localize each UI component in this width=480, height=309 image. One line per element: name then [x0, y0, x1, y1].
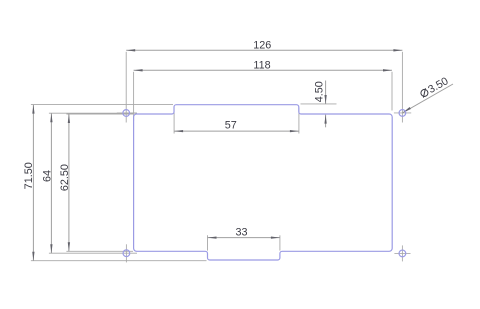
svg-text:62.50: 62.50	[59, 164, 71, 191]
centermark bottom-left hole vertical	[125, 244, 127, 262]
hole bottom-right	[399, 250, 406, 257]
svg-text:4.50: 4.50	[314, 81, 326, 102]
dimension 4.50 (tab height)	[301, 81, 337, 128]
dimension 33 (bottom tab width)	[208, 226, 280, 250]
hole top-right	[399, 110, 406, 117]
svg-text:118: 118	[253, 60, 270, 72]
dimension diameter 3.50 leader	[403, 75, 453, 113]
hole bottom-left	[123, 250, 130, 257]
svg-text:126: 126	[253, 40, 271, 52]
centermark top-right hole horizontal	[394, 112, 411, 114]
svg-text:71.50: 71.50	[23, 162, 35, 189]
dimension 126	[126, 40, 402, 123]
hole top-left	[123, 110, 130, 117]
part outline (sheet body with top tab and bottom tab)	[134, 105, 393, 260]
dimension 64 (hole to hole)	[42, 113, 137, 253]
svg-text:64: 64	[42, 170, 54, 182]
dimension 118	[134, 60, 392, 121]
centermark top-left hole horizontal	[117, 112, 137, 114]
svg-text:57: 57	[225, 120, 237, 132]
dimension 57 (top tab width)	[174, 106, 299, 133]
dimension 62.50 (inner height)	[59, 114, 133, 251]
dimension 71.50 (overall height)	[23, 105, 207, 261]
svg-text:33: 33	[235, 226, 247, 238]
centermark bottom-right hole	[394, 245, 410, 261]
